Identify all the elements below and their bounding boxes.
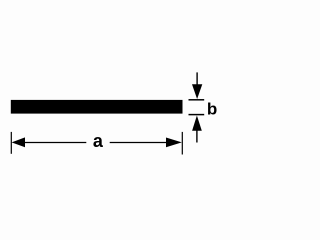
svg-text:b: b (207, 100, 217, 119)
dimension a: right arrowhead (points right) (166, 138, 182, 148)
svg-text:a: a (93, 131, 104, 151)
dimension a: left arrowhead (points left) (12, 137, 25, 147)
dimension b: lower arrow shaft (196, 130, 198, 143)
dimension b: upper arrowhead (points down) (192, 84, 202, 99)
flat bar profile (cross-section) (11, 100, 183, 114)
dimension a: right line segment (110, 142, 167, 144)
dimension b: bottom extension line (189, 114, 205, 116)
dimension a: right extension line (181, 132, 183, 155)
dimension b: top extension line (189, 99, 205, 101)
dimension a: left extension line (10, 132, 12, 154)
dimension b: upper arrow shaft (196, 72, 198, 85)
dimension a: left line segment (25, 142, 87, 144)
dimension b: lower arrowhead (points up) (192, 116, 202, 131)
